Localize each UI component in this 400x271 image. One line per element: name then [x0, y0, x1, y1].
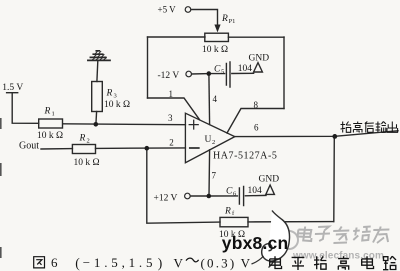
- potentiometer RP1 wiper arrow: [214, 25, 220, 33]
- op-amp plus sign: [189, 120, 198, 129]
- svg-text:10 k Ω: 10 k Ω: [202, 45, 228, 55]
- char chu (out): [387, 122, 398, 133]
- svg-text:104: 104: [248, 186, 263, 196]
- node junction pin2/feedback: [145, 146, 150, 151]
- char you (friend): [372, 227, 390, 244]
- svg-text:HA7-5127A-5: HA7-5127A-5: [213, 151, 277, 162]
- svg-text:C: C: [214, 65, 221, 75]
- svg-text:4: 4: [213, 94, 218, 104]
- svg-text:V: V: [241, 255, 251, 270]
- char gao (high): [353, 122, 362, 133]
- wire -12V to junction: [192, 73, 209, 75]
- wire junction to C6: [209, 195, 238, 197]
- char dian (electric): [362, 256, 374, 268]
- ground GND triangle (C6): [266, 185, 275, 194]
- svg-text:8: 8: [254, 100, 259, 110]
- wire Gout to R2: [41, 148, 72, 150]
- svg-text:10 k Ω: 10 k Ω: [37, 131, 63, 141]
- wire C6 to GND: [245, 194, 266, 196]
- svg-text:1.5 V: 1.5 V: [2, 83, 23, 93]
- svg-text:): ): [158, 256, 163, 271]
- char tai (lift): [314, 256, 326, 269]
- wire +5V to wiper: [191, 10, 218, 26]
- resistor R2: [72, 145, 95, 154]
- svg-text:U: U: [205, 135, 212, 145]
- svg-text:10 k Ω: 10 k Ω: [74, 158, 100, 168]
- char zi (child): [314, 227, 331, 242]
- svg-text:104: 104: [238, 64, 253, 74]
- wire left vertical to pin1: [147, 37, 149, 98]
- svg-text:R: R: [106, 89, 113, 99]
- char shao (burn): [352, 227, 371, 241]
- left edge scan marks: [0, 118, 2, 258]
- wire pin 8: [227, 109, 284, 134]
- char dian (electric): [270, 256, 282, 268]
- svg-text:(0.3): (0.3): [201, 255, 237, 270]
- char tai (lift): [341, 122, 352, 133]
- svg-text:R: R: [44, 107, 51, 117]
- watermark swoosh tail: [252, 256, 275, 268]
- node output label (Chinese: raised output) drawn glyphs: [341, 122, 398, 133]
- caption figure 6: [34, 257, 45, 268]
- wire 1.5V down: [12, 93, 39, 124]
- svg-text:(: (: [75, 256, 80, 271]
- resistor Rf: [220, 217, 248, 226]
- wire R1 to pin 3: [63, 123, 185, 126]
- wire right vertical to pin8: [283, 37, 285, 109]
- wire output pin 6: [235, 131, 398, 137]
- capacitor C6: [239, 187, 243, 206]
- potentiometer RP1 body: [205, 33, 229, 41]
- tilde: [186, 258, 199, 262]
- node -12V terminal: [186, 71, 192, 77]
- svg-text:2: 2: [169, 137, 174, 147]
- wire feedback bottom left: [147, 148, 220, 223]
- svg-text:ybx8.cn: ybx8.cn: [222, 233, 289, 253]
- char fa (emit): [332, 227, 350, 244]
- wire R3 to junction: [95, 112, 98, 125]
- node output junction: [332, 134, 337, 139]
- node +5V terminal: [185, 7, 191, 13]
- char gao (high): [338, 256, 349, 270]
- svg-text:5: 5: [221, 68, 224, 75]
- wire pin 7: [208, 150, 211, 196]
- wire pot right: [228, 36, 284, 38]
- svg-text:P1: P1: [229, 18, 236, 25]
- svg-text:−1.5,1.5: −1.5,1.5: [83, 255, 156, 270]
- wire C5 to GND: [232, 72, 254, 74]
- char lu (road): [383, 256, 396, 270]
- wire +12V to junction: [190, 195, 209, 197]
- resistor R1: [39, 119, 63, 128]
- node 1.5V terminal bar: [7, 92, 18, 94]
- char dian (electric): [297, 227, 313, 242]
- svg-text:2: 2: [87, 138, 90, 145]
- op-amp minus sign: [190, 147, 199, 149]
- watermark ybx8.cn swoosh logo: [262, 211, 290, 262]
- ground GND triangle (C5): [254, 63, 263, 72]
- wire R2 to pin 2: [96, 147, 186, 150]
- capacitor C5: [226, 62, 230, 87]
- svg-text:+5 V: +5 V: [158, 5, 177, 15]
- svg-text:R: R: [221, 14, 228, 24]
- watermark elecfans glyphs (gray): [297, 227, 390, 244]
- svg-text:3: 3: [168, 113, 173, 123]
- wire ground to R3: [96, 61, 99, 82]
- wire pin 1: [148, 98, 200, 120]
- op-amp U2: [185, 113, 234, 163]
- node junction +12V/C6/pin7: [207, 194, 212, 199]
- svg-text:10 k Ω: 10 k Ω: [104, 100, 130, 110]
- svg-text:GND: GND: [259, 174, 280, 184]
- svg-text:6: 6: [254, 123, 259, 133]
- wire feedback bottom right: [248, 221, 334, 223]
- wire feedback vertical right: [333, 136, 336, 221]
- wire junction to C5: [209, 73, 225, 75]
- svg-text:C: C: [226, 186, 233, 196]
- svg-text:2: 2: [212, 139, 215, 146]
- svg-text:1: 1: [169, 89, 174, 99]
- node +12V terminal: [185, 193, 191, 199]
- svg-text:GND: GND: [249, 54, 270, 64]
- svg-text:-12 V: -12 V: [158, 71, 180, 81]
- char ping (level): [292, 257, 305, 270]
- svg-text:www.elecfans.com: www.elecfans.com: [292, 250, 384, 261]
- svg-text:3: 3: [114, 93, 117, 100]
- svg-text:6: 6: [51, 255, 58, 270]
- svg-text:7: 7: [212, 171, 217, 181]
- watermark elecfans ring: [280, 231, 298, 249]
- svg-text:1: 1: [52, 111, 55, 118]
- node junction R1/R3/pin3: [94, 122, 99, 127]
- node junction -12V/C5/pin4: [207, 71, 212, 76]
- svg-text:+12 V: +12 V: [154, 193, 178, 203]
- wire pot left: [148, 36, 206, 38]
- svg-text:Gout: Gout: [19, 140, 39, 151]
- svg-text:R: R: [79, 134, 86, 144]
- resistor R3: [92, 82, 103, 112]
- char hou (after): [365, 122, 374, 133]
- wire pin 4: [208, 74, 211, 125]
- caption Chinese: level raising circuit: [270, 256, 396, 270]
- ground (earth) symbol: [88, 51, 110, 61]
- char tu (figure): [34, 257, 45, 268]
- svg-text:R: R: [224, 206, 231, 216]
- char shu (transport): [375, 122, 386, 133]
- svg-text:V: V: [174, 255, 184, 270]
